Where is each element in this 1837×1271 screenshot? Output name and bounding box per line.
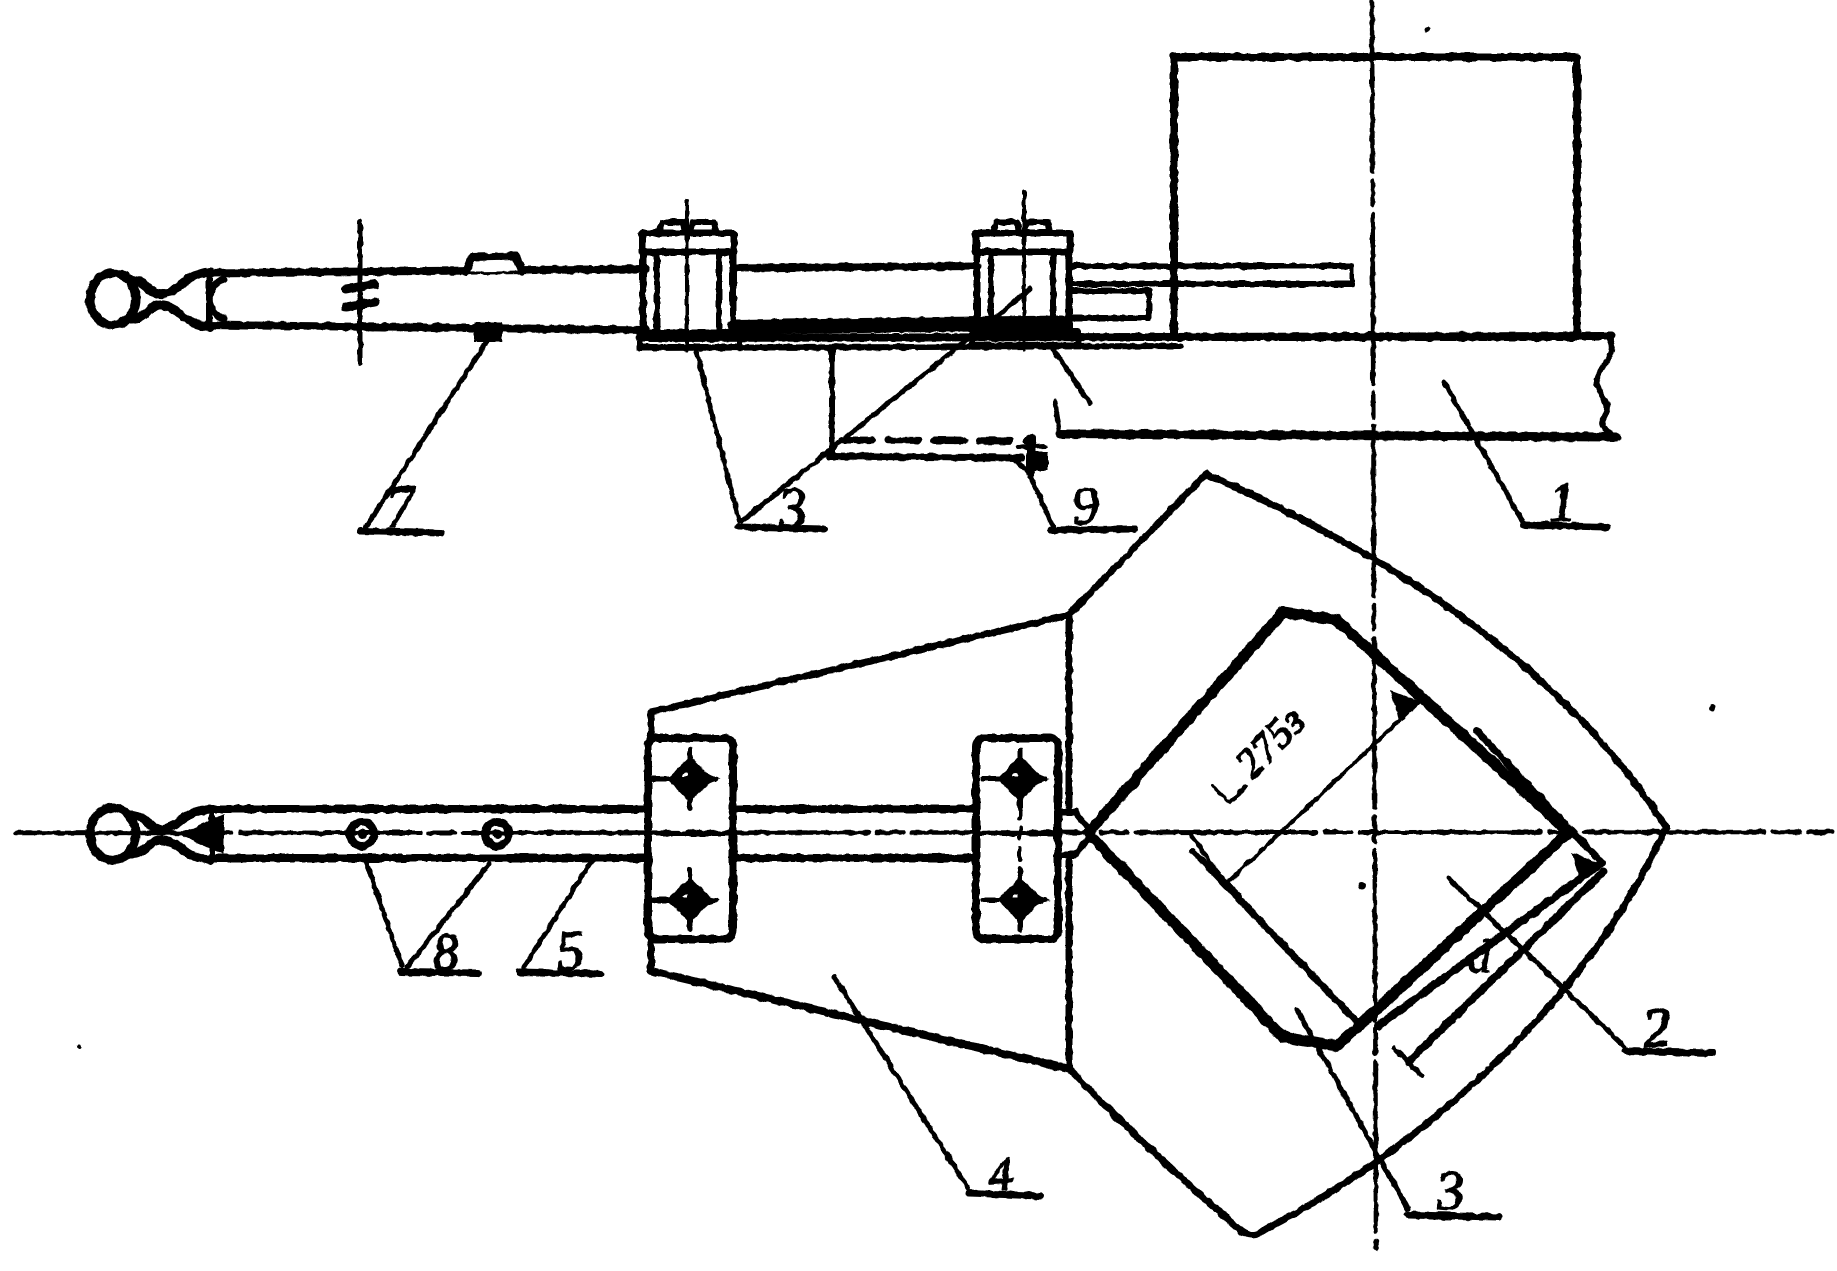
beam 1 bottom edge [1060, 434, 1616, 437]
vertical centerline [1372, 2, 1376, 1248]
bolt B2 top [1002, 761, 1038, 797]
shield outline (pontoon) [1069, 474, 1206, 615]
freehand break line at beam right end [1596, 338, 1613, 437]
eye loop (plan view) [90, 808, 136, 860]
speck noise dots [1424, 27, 1430, 33]
svg-text:4: 4 [987, 1147, 1015, 1202]
deck plate top line [640, 336, 1611, 338]
leader and label 7 [366, 338, 489, 527]
leader and label 9 [1030, 476, 1053, 526]
pin square under rod (part 7) [474, 322, 502, 342]
cone point of rod end [178, 814, 224, 854]
pin 8 (left) [350, 822, 374, 846]
svg-text:2: 2 [1640, 996, 1672, 1060]
pedestal under plate [829, 349, 835, 455]
rod cone tip at diamond vertex [1075, 812, 1092, 855]
svg-text:3: 3 [1433, 1159, 1466, 1223]
bolt B1 top [672, 761, 708, 797]
leader and label 3 (plan view) [1297, 1010, 1408, 1209]
dashed bolt axis B2 [1018, 806, 1022, 874]
bracket B2 (plan view) [976, 738, 1058, 939]
thin rod extension right of bracket B2 [1069, 263, 1352, 269]
dimension line 2275 [1190, 833, 1226, 884]
rod 5 (plan view) [210, 805, 648, 813]
svg-text:3: 3 [775, 474, 809, 541]
key bump on rod top [466, 256, 522, 272]
leader and label 1 (beam) [1444, 382, 1524, 523]
inner band lines with d dimension [1378, 864, 1600, 1026]
box / housing on deck [1174, 57, 1577, 337]
leaders and label 8 (pins) [366, 862, 402, 966]
svg-text:1: 1 [1546, 471, 1578, 535]
deck plate bottom line (left part) [640, 346, 1180, 348]
leader and label 2 (diamond plate) [1448, 878, 1625, 1047]
bracket B1 (plan view) [648, 738, 733, 939]
diamond plate 2 (rotated square) [1088, 612, 1569, 1046]
leaders and label 3 (top view clamps) [742, 289, 1030, 521]
eye loop (top view, towing eye) [90, 273, 136, 325]
pin 8 (right) [485, 822, 509, 846]
hidden edge (dashed) behind pedestal [842, 440, 1028, 441]
svg-text:5: 5 [554, 919, 586, 983]
svg-text:8: 8 [431, 923, 461, 982]
leader and label 5 (rod) [524, 860, 592, 967]
rod between brackets (top view) [733, 266, 978, 268]
bracket B2 (top view, clamp 3) [977, 252, 1069, 331]
trapezoid plate 4 [651, 615, 1069, 712]
clip / stop 9 [1027, 438, 1036, 472]
bolt B1 bottom [672, 882, 708, 918]
break / section mark on rod [358, 222, 363, 363]
bolt B2 bottom [1002, 882, 1038, 918]
rod left segment (top view) [207, 269, 646, 273]
step plate between bracket B2 and box [1072, 288, 1149, 294]
svg-text:d: d [1468, 931, 1492, 982]
leader and label 4 (trapezoid plate) [834, 977, 968, 1188]
horizontal centerline [16, 832, 1832, 833]
bracket B1 (top view, clamp 3) [643, 252, 733, 333]
centerline through brackets [648, 832, 733, 836]
inner square edge (lower-left) [1193, 851, 1356, 1021]
svg-text:9: 9 [1070, 474, 1101, 536]
